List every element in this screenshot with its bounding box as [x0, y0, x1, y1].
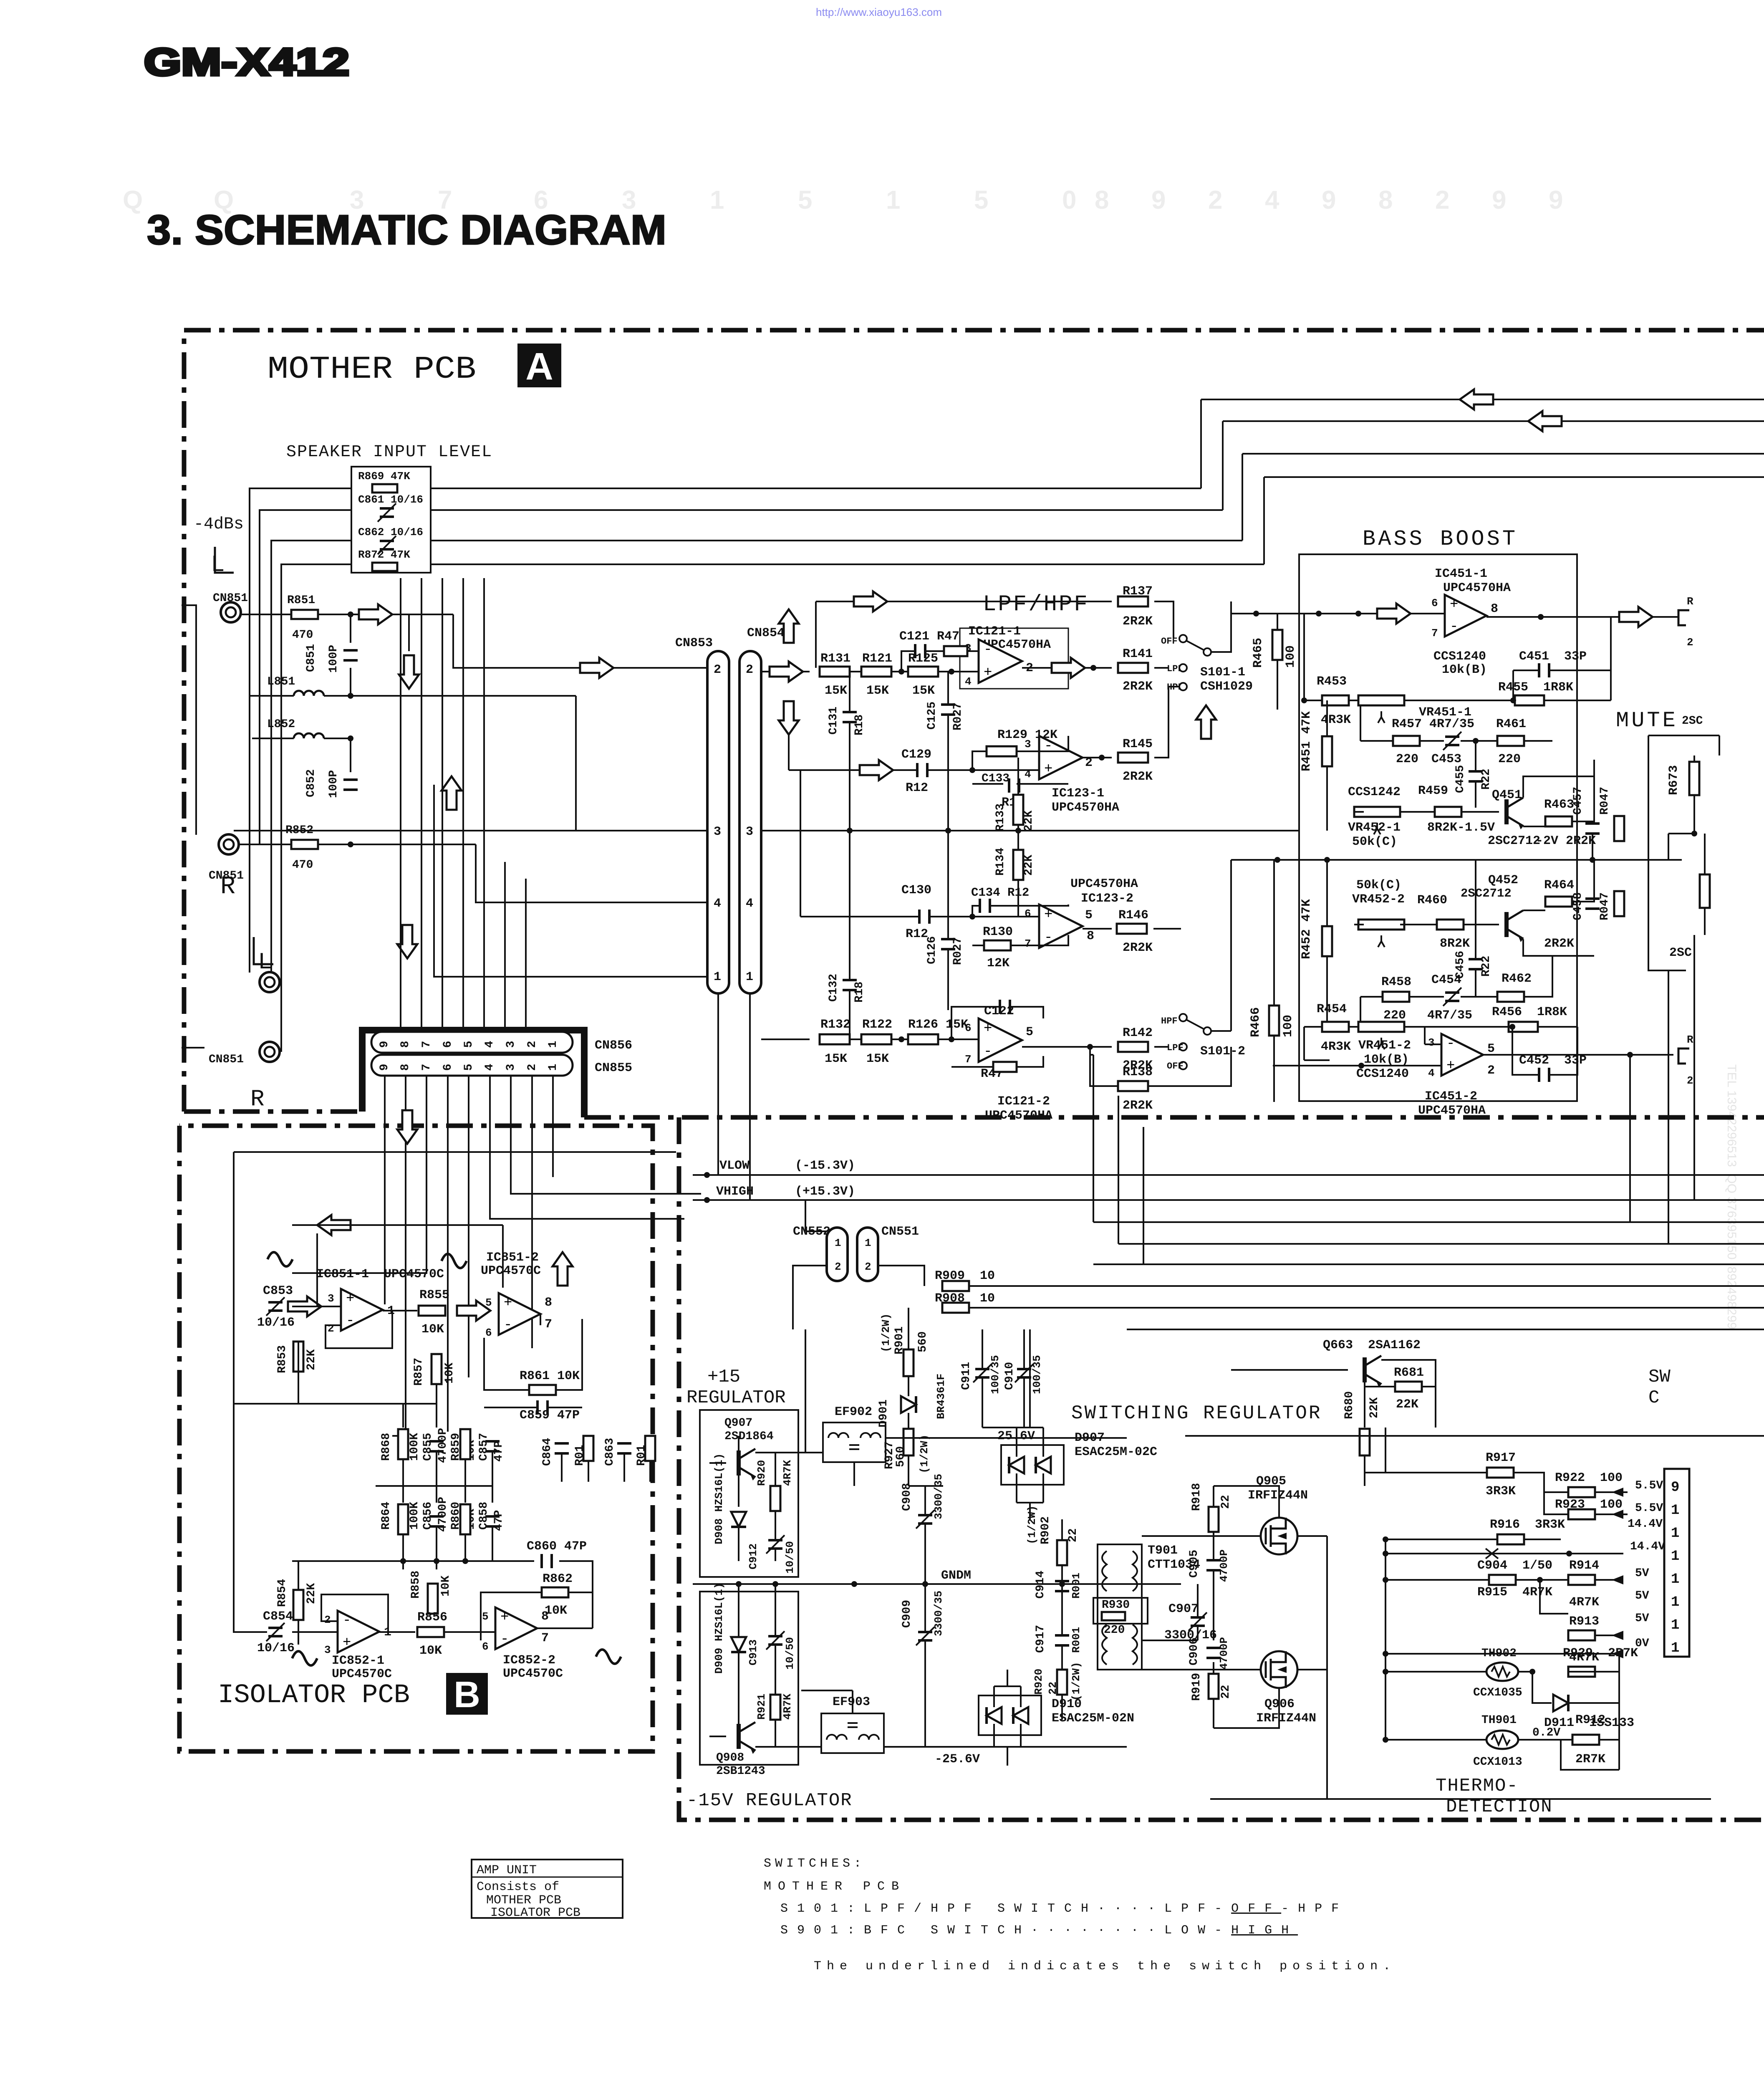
svg-text:R12: R12 [906, 927, 928, 941]
connector CN552 [827, 1228, 848, 1281]
svg-text:B: B [454, 1674, 480, 1715]
svg-text:Q907: Q907 [724, 1417, 752, 1430]
diode D911 [1553, 1695, 1568, 1711]
svg-text:4R3K: 4R3K [1321, 713, 1351, 727]
resistor R456 [1509, 1022, 1538, 1032]
connector CN851 jack R2 [260, 1042, 280, 1062]
junction [1358, 1063, 1364, 1069]
junction [1383, 1669, 1388, 1675]
wire r458 row [1360, 956, 1552, 1027]
filter EF902 [823, 1422, 886, 1462]
svg-text:R457 4R7/35: R457 4R7/35 [1392, 717, 1474, 731]
wire ic123-2 out [1083, 928, 1112, 930]
wire right column drops [1630, 935, 1694, 1244]
wire R852 out [318, 844, 476, 845]
svg-text:CSH1029: CSH1029 [1200, 680, 1253, 694]
resistor R122 [861, 1034, 891, 1044]
svg-text:15K: 15K [912, 684, 935, 698]
svg-text:5V: 5V [1635, 1567, 1649, 1580]
svg-text:R922 100: R922 100 [1555, 1471, 1623, 1485]
wire top bus 3 [1242, 453, 1764, 455]
svg-text:5.5V: 5.5V [1635, 1479, 1663, 1492]
svg-text:R858: R858 [409, 1571, 422, 1599]
svg-text:R912: R912 [1575, 1713, 1605, 1727]
resistor R129 [987, 746, 1017, 756]
resistor R856 [417, 1627, 444, 1637]
svg-text:5: 5 [974, 186, 988, 215]
svg-text:220: 220 [1104, 1624, 1125, 1637]
wire R133 down [1017, 825, 1019, 831]
svg-text:10k(B): 10k(B) [1364, 1053, 1409, 1067]
svg-text:R921: R921 [755, 1694, 768, 1720]
connector CN855 [371, 1055, 573, 1076]
svg-text:5: 5 [1026, 1025, 1033, 1039]
svg-text:10/16: 10/16 [257, 1316, 295, 1330]
svg-text:-: - [500, 1632, 509, 1647]
svg-text:L852: L852 [267, 718, 295, 731]
svg-text:14.4V: 14.4V [1628, 1518, 1663, 1531]
svg-text:3: 3 [324, 1644, 331, 1656]
badge A [517, 344, 561, 388]
wire feedback ic121-2 [951, 1007, 1043, 1067]
resistor R853 [293, 1342, 303, 1372]
arrow bass out R [1619, 607, 1653, 627]
svg-text:2: 2 [324, 1614, 331, 1626]
resistor R858 [428, 1584, 438, 1614]
wire r902 col [1061, 1519, 1063, 1620]
svg-text:-: - [984, 1044, 992, 1060]
junction [1627, 1052, 1633, 1058]
svg-text:1: 1 [1671, 1640, 1679, 1656]
svg-text:OFF: OFF [1167, 1061, 1184, 1071]
wire d911 out [1568, 1702, 1619, 1704]
svg-text:C458: C458 [1572, 892, 1585, 920]
arrow R855 out [457, 1301, 490, 1321]
op-amp IC123-1 [1039, 736, 1083, 779]
wire R142 right [1154, 1046, 1168, 1048]
svg-text:IRFIZ44N: IRFIZ44N [1256, 1711, 1316, 1726]
capacitor C910 [1015, 1364, 1033, 1382]
svg-text:C454: C454 [1431, 973, 1461, 987]
junction [898, 669, 904, 675]
junction [1316, 611, 1322, 616]
svg-text:2SC2712: 2SC2712 [1488, 834, 1540, 848]
wire bus rows right [968, 1222, 1764, 1329]
connector CN851 jack L2 [260, 972, 280, 992]
svg-text:2: 2 [1687, 1074, 1693, 1087]
svg-text:4R3K: 4R3K [1321, 1040, 1351, 1054]
resistor R452 [1322, 926, 1332, 956]
svg-text:CN854: CN854 [747, 626, 785, 640]
resistor R125 [908, 667, 938, 677]
resistor R462 [1497, 992, 1524, 1002]
capacitor C860 [542, 1554, 552, 1568]
svg-text:UPC4570HA: UPC4570HA [985, 1109, 1052, 1123]
svg-text:-: - [1044, 930, 1052, 946]
svg-text:C854: C854 [263, 1609, 293, 1624]
junction [945, 828, 951, 834]
svg-text:R462: R462 [1502, 972, 1532, 986]
wire bus to R134 [1017, 831, 1019, 850]
svg-text:R920: R920 [1032, 1669, 1045, 1695]
diode block D910 [979, 1695, 1041, 1735]
wire to R854 [298, 1561, 299, 1590]
resistor R460 [1437, 920, 1464, 930]
svg-text:CCS1240: CCS1240 [1356, 1067, 1409, 1081]
resistor R930 [1102, 1612, 1125, 1620]
wire to R133 [1017, 758, 1019, 795]
svg-text:+15: +15 [707, 1367, 740, 1387]
resistor R146 [1117, 924, 1147, 934]
svg-text:5: 5 [482, 1610, 489, 1623]
wire isolator top entry [292, 1224, 503, 1226]
junction [704, 1172, 710, 1178]
svg-text:C451 33P: C451 33P [1519, 649, 1587, 664]
svg-text:L: L [211, 551, 225, 578]
resistor R138 [1118, 1081, 1148, 1091]
wire R851 out [318, 614, 453, 615]
svg-text:22: 22 [1219, 1495, 1232, 1509]
wire R141 to switch [1154, 667, 1168, 669]
svg-text:VR452-2: VR452-2 [1352, 892, 1405, 907]
wire left bundle [250, 488, 351, 1052]
wire to C456 [1475, 860, 1476, 959]
resistor R673 [1689, 762, 1699, 795]
junction [348, 611, 353, 617]
resistor R455 [1515, 695, 1544, 705]
mother pcb border [184, 330, 1764, 1112]
wire isolator entry drop [502, 1225, 504, 1288]
svg-text:R919: R919 [1190, 1673, 1203, 1701]
arrow left isolator top [317, 1215, 351, 1235]
resistor R859 [460, 1429, 470, 1459]
capacitor C129 [917, 763, 927, 777]
svg-text:8: 8 [1095, 186, 1109, 215]
svg-text:+: + [346, 1291, 354, 1307]
svg-text:50k(C): 50k(C) [1356, 878, 1401, 892]
svg-text:D907: D907 [1075, 1431, 1105, 1445]
svg-text:R456 1R8K: R456 1R8K [1492, 1005, 1567, 1019]
svg-text:6: 6 [482, 1640, 489, 1653]
capacitor C905 [1206, 1560, 1221, 1570]
svg-text:9: 9 [1151, 186, 1166, 215]
junction [1383, 1536, 1388, 1542]
svg-text:7: 7 [1431, 627, 1438, 639]
wire R854 down [298, 1620, 299, 1645]
svg-text:22: 22 [1219, 1685, 1232, 1699]
svg-text:C863: C863 [603, 1438, 616, 1466]
svg-text:-: - [984, 642, 992, 658]
capacitor C911 [973, 1364, 992, 1382]
svg-text:C131: C131 [827, 707, 840, 735]
svg-text:IC851-2: IC851-2 [486, 1251, 539, 1265]
svg-text:UPC4570C: UPC4570C [481, 1264, 541, 1278]
svg-text:+: + [1450, 597, 1458, 613]
wire ic121-1 out [1022, 667, 1112, 669]
svg-text:SWITCHES:: SWITCHES: [764, 1857, 865, 1871]
svg-text:470: 470 [292, 859, 313, 872]
wire R465 down [1277, 660, 1278, 710]
wire ic451-2 io [1273, 1027, 1673, 1066]
wire to C125 [947, 672, 949, 705]
svg-text:HPF: HPF [1161, 1016, 1178, 1026]
svg-text:2SD1864: 2SD1864 [724, 1430, 774, 1443]
wire q906 [1142, 1584, 1327, 1728]
svg-text:R917: R917 [1486, 1451, 1516, 1465]
connector CN851 jack L1 [221, 602, 241, 622]
svg-text:R: R [250, 1086, 265, 1112]
wire riser 3 [1242, 454, 1243, 541]
junction [348, 735, 353, 741]
svg-text:THERMO-: THERMO- [1436, 1776, 1519, 1796]
capacitor C908 [916, 1510, 934, 1529]
svg-text:C913: C913 [747, 1640, 760, 1665]
resistor R857 [432, 1354, 442, 1384]
wire mute drop [1668, 834, 1669, 860]
svg-text:CN551: CN551 [881, 1225, 919, 1239]
svg-text:2: 2 [1687, 636, 1693, 649]
svg-text:R133: R133 [994, 803, 1007, 831]
wire to R465 [1277, 614, 1278, 630]
resistor R130 [984, 940, 1011, 950]
resistor R912 [1572, 1735, 1599, 1745]
svg-text:(1/2W): (1/2W) [1070, 1662, 1083, 1701]
svg-text:7: 7 [545, 1317, 552, 1332]
capacitor C132 [843, 980, 857, 990]
svg-text:100K: 100K [408, 1433, 421, 1461]
wire switch common right [1211, 601, 1231, 652]
junction [898, 1036, 904, 1042]
resistor R132 [820, 1034, 850, 1044]
svg-text:+: + [1044, 761, 1052, 777]
capacitor C454 [1443, 988, 1461, 1006]
capacitor C913 [766, 1631, 785, 1650]
svg-text:C911: C911 [960, 1362, 973, 1390]
svg-text:R: R [1687, 595, 1693, 608]
svg-text:R857: R857 [412, 1358, 425, 1386]
svg-text:CN855: CN855 [595, 1061, 632, 1075]
thermistor TH902 [1486, 1663, 1518, 1681]
svg-text:TH902: TH902 [1481, 1647, 1517, 1660]
svg-text:R146: R146 [1118, 908, 1148, 922]
strike cap 14.4 [1486, 1549, 1498, 1559]
resistor R922 [1568, 1487, 1595, 1497]
svg-text:CN853: CN853 [675, 636, 713, 650]
svg-text:4: 4 [1025, 768, 1031, 781]
svg-text:3: 3 [746, 825, 753, 839]
svg-text:C914: C914 [1034, 1571, 1047, 1599]
svg-text:R915 4R7K: R915 4R7K [1477, 1585, 1552, 1599]
svg-text:2SC2712: 2SC2712 [1461, 887, 1512, 900]
resistor R862 [542, 1587, 568, 1597]
capacitor C130 [919, 910, 929, 924]
resistor R457 [1393, 736, 1420, 746]
svg-text:R132: R132 [820, 1018, 850, 1032]
svg-text:MOTHER PCB: MOTHER PCB [268, 351, 476, 387]
op-amp IC123-2 [1039, 905, 1083, 948]
svg-text:2: 2 [1435, 186, 1449, 215]
svg-text:R047: R047 [1598, 892, 1611, 920]
svg-text:IC852-2: IC852-2 [503, 1653, 555, 1668]
svg-text:1: 1 [1671, 1617, 1679, 1633]
capacitor C451 [1539, 663, 1549, 677]
svg-text:SPEAKER INPUT LEVEL: SPEAKER INPUT LEVEL [286, 443, 492, 462]
wire C452 loop [1512, 1027, 1577, 1075]
transistor Q907 [739, 1449, 756, 1481]
svg-text:MOTHER PCB: MOTHER PCB [486, 1893, 561, 1908]
svg-text:5: 5 [1487, 1042, 1495, 1056]
wire thermo verticals [1385, 1428, 1619, 1770]
wire 14.4 line [1385, 1553, 1623, 1554]
junction [847, 828, 853, 834]
svg-text:CCX1035: CCX1035 [1473, 1686, 1522, 1699]
stub out top [1678, 610, 1689, 625]
resistor R121 [861, 667, 891, 677]
wire speaker line 1 [431, 488, 1201, 489]
wire C451 loop [1513, 617, 1611, 700]
junction [1383, 1651, 1388, 1657]
capacitor C457 [1585, 824, 1600, 834]
connector CN854 [739, 651, 761, 993]
svg-text:1: 1 [1671, 1503, 1679, 1519]
wire c908 [908, 1486, 943, 1584]
svg-text:15K: 15K [866, 1052, 889, 1066]
wire bus to C132 [849, 831, 850, 980]
wire GNDM bus [693, 1583, 1181, 1585]
svg-text:-: - [343, 1613, 351, 1629]
resistor R852 [291, 840, 318, 849]
resistor R868 [398, 1429, 408, 1459]
svg-text:100/35: 100/35 [989, 1355, 1002, 1394]
svg-text:S101-1: S101-1 [1200, 665, 1245, 680]
svg-text:6: 6 [442, 1041, 454, 1048]
svg-text:C132: C132 [827, 974, 840, 1002]
svg-text:R027: R027 [951, 937, 964, 965]
amp unit box [472, 1860, 623, 1918]
svg-text:5: 5 [462, 1041, 475, 1048]
stub out bottom [1678, 1049, 1689, 1064]
svg-text:+: + [1044, 907, 1052, 923]
bass boost box [1299, 554, 1577, 1101]
svg-text:R862: R862 [543, 1572, 573, 1586]
svg-text:UPC4570HA: UPC4570HA [1052, 801, 1119, 815]
svg-text:-25.6V: -25.6V [935, 1752, 980, 1766]
wire mid bus left part [234, 830, 707, 831]
svg-text:9: 9 [378, 1041, 391, 1048]
svg-text:1: 1 [1671, 1549, 1679, 1564]
svg-text:VLOW: VLOW [719, 1159, 750, 1173]
svg-text:6: 6 [442, 1064, 454, 1071]
op-amp IC852-1 [338, 1611, 379, 1652]
svg-text:R142: R142 [1123, 1026, 1153, 1040]
bracket CN851 third [182, 1047, 204, 1049]
svg-text:+: + [1446, 1058, 1455, 1074]
svg-text:VR452-1: VR452-1 [1348, 821, 1401, 835]
op-amp IC121-1 [979, 639, 1022, 683]
wire R134 down [1017, 880, 1019, 917]
svg-text:REGULATOR: REGULATOR [686, 1387, 786, 1408]
svg-text:C853: C853 [263, 1284, 293, 1298]
bracket L input [215, 547, 234, 573]
svg-text:VHIGH: VHIGH [716, 1185, 754, 1199]
svg-text:C852: C852 [305, 769, 318, 797]
wire C125 down [947, 715, 949, 831]
resistor R01a [583, 1436, 593, 1461]
svg-text:R914: R914 [1569, 1559, 1599, 1573]
resistor R920 [770, 1486, 780, 1511]
svg-text:2SC: 2SC [1669, 946, 1692, 960]
wire r457 row [1360, 705, 1552, 741]
wire R673 bottom [1693, 795, 1695, 834]
resistor R916 [1497, 1534, 1524, 1544]
resistor R855 [419, 1306, 445, 1316]
capacitor C909 [916, 1627, 934, 1645]
resistor R458 [1383, 992, 1409, 1002]
resistor R142 [1118, 1042, 1148, 1052]
wire top bus 2 [1223, 420, 1764, 422]
svg-text:3: 3 [1025, 738, 1031, 750]
svg-text:R458: R458 [1381, 975, 1411, 989]
svg-text:2R2K: 2R2K [1123, 1099, 1153, 1113]
svg-text:4R7/35: 4R7/35 [1427, 1008, 1472, 1023]
svg-text:C907: C907 [1168, 1602, 1199, 1616]
svg-text:C909: C909 [901, 1600, 914, 1628]
svg-text:MUTE: MUTE [1616, 708, 1678, 733]
wire bus vhigh [693, 1199, 1764, 1201]
svg-text:C455: C455 [1454, 765, 1467, 793]
svg-text:R455 1R8K: R455 1R8K [1498, 680, 1573, 695]
wire q663 [1231, 1360, 1436, 1428]
svg-text:R920: R920 [755, 1460, 768, 1486]
wire R132-R122 [850, 1038, 861, 1040]
wire d907 [1017, 1329, 1043, 1519]
capacitor C852 [343, 780, 358, 790]
svg-text:R673: R673 [1667, 765, 1681, 795]
inductor L852 [294, 733, 324, 738]
svg-text:6: 6 [965, 1022, 972, 1034]
arrow down input [399, 655, 419, 689]
svg-text:S901:BFC SWITCH········LOW-HIG: S901:BFC SWITCH········LOW-HIGH [780, 1923, 1298, 1938]
svg-text:22K: 22K [1022, 854, 1035, 876]
wire bus to C126 [947, 831, 949, 939]
svg-text:8: 8 [541, 1609, 549, 1624]
svg-text:IC121-1: IC121-1 [968, 624, 1021, 639]
wire C455 down [1475, 781, 1476, 808]
wire to L852 [252, 738, 294, 739]
transformer T901 [1098, 1544, 1142, 1670]
svg-text:C859 47P: C859 47P [520, 1408, 580, 1422]
wire to C131 [849, 672, 850, 712]
svg-text:CN856: CN856 [595, 1038, 632, 1053]
svg-text:2SB1243: 2SB1243 [716, 1765, 765, 1778]
power section border left [679, 1117, 1764, 1820]
potentiometer VR452-2 [1358, 920, 1404, 947]
arrow R851 out [359, 604, 392, 624]
wire c917 col [1061, 1620, 1063, 1720]
wire R122-R126 [891, 1038, 907, 1040]
wire ic451-1 out [1486, 616, 1678, 618]
wire C130 out [930, 916, 1039, 917]
svg-text:R463: R463 [1544, 798, 1574, 812]
wire input to CN853 pin2 [453, 614, 707, 668]
capacitor C864 [555, 1443, 569, 1453]
junction [949, 669, 954, 675]
wire ic852-2 fb [444, 1561, 593, 1640]
svg-text:10K: 10K [439, 1575, 452, 1597]
svg-text:IC451-2: IC451-2 [1425, 1089, 1477, 1104]
resistor R927 [903, 1429, 914, 1455]
resistor R860 [460, 1504, 470, 1534]
